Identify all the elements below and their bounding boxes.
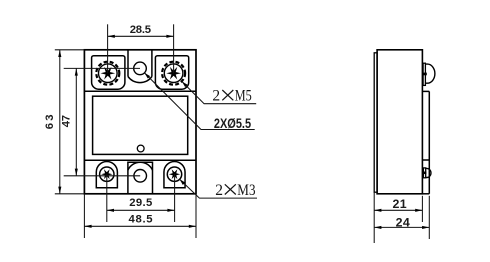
screw top-right: knurled ring [162,62,185,85]
star of top-right screw [166,67,181,80]
side body outline [377,50,422,194]
terminal cover strip top [422,90,429,92]
leader arrow M3 [180,179,186,185]
leader 2X diam 5.5 [145,73,255,130]
screw top-left head circle [99,64,118,83]
dim 47 extension lines [64,67,140,69]
svg-text:2: 2 [212,88,220,105]
bottom-right screw block [164,161,185,187]
arrows 29.5 [107,209,114,212]
label 2xM5 [212,88,252,105]
dim 28.5 line [108,35,174,37]
bottom-right screw head circle [167,167,181,181]
side top screw slot [423,73,427,76]
arrows 48.5 [84,225,91,228]
svg-text:2XØ5.5: 2XØ5.5 [214,116,252,131]
side dims left extension line [373,192,375,243]
leader arrow diam5.5 [145,73,151,79]
svg-text:21: 21 [393,197,408,211]
baseplate strip [374,53,377,192]
terminal cover strip right edge [428,91,430,193]
top-right terminal block [155,56,188,89]
screw U1 top-left: knurled ring [96,62,119,85]
leader 2xM3 [180,179,257,198]
label window [93,96,188,154]
bottom-left screw block [96,161,117,187]
side bottom screw washer [423,168,425,178]
bottom terminal section divider [84,159,196,161]
dim 21 line [374,209,422,211]
svg-text:29.5: 29.5 [129,197,152,209]
bottom mounting hole (2X diam 5.5) [134,170,147,183]
cover bottom edge [422,193,429,195]
relay body outline [84,50,196,194]
star of bottom-right screw [169,169,180,179]
dim 29.5 line [107,209,175,211]
svg-text:24: 24 [396,215,411,229]
svg-text:28.5: 28.5 [130,24,151,36]
bottom center block [128,162,153,194]
arrows 47 [75,68,78,75]
side top screw head [425,64,434,83]
svg-text:M3: M3 [237,182,255,199]
arrows 28.5 [108,35,115,38]
dim 28.5 extension lines [107,24,109,73]
dimension arrowheads [58,35,429,229]
svg-text:48.5: 48.5 [129,214,154,226]
bottom-left screw head circle [100,167,114,181]
arrows 21 [374,209,381,212]
dim 48.5 extension lines [83,194,85,238]
dim 47 line [75,68,77,175]
dim 63 line [59,50,61,194]
star of bottom-left screw [101,169,112,179]
dim 63 extension lines [55,49,85,51]
side bottom screw head [426,168,431,177]
dim 21 right extension line [421,196,423,222]
dim 24 line [374,226,429,228]
svg-text:47: 47 [60,115,72,127]
terminal cover divider [422,159,429,161]
leader 2xM5 [182,82,256,104]
top-left terminal block [92,56,125,89]
screw top-right head circle [164,64,183,83]
dim 29.5 extension lines [106,174,108,222]
side top screw washer [423,63,425,85]
LED indicator circle [137,145,144,152]
leader arrow M5 [182,82,188,88]
svg-text:M5: M5 [235,88,252,105]
bottom hole counterbore dome [128,162,153,170]
dim 48.5 line [84,225,196,227]
side bottom screw slot [423,172,427,175]
top mounting hole recess walls [127,50,129,77]
label 2xM3 [215,182,255,199]
arrows 24 [374,226,381,229]
star of top-left screw [101,67,116,80]
dim 24 right extension line [428,196,430,239]
screw cross stars [101,67,181,179]
top mounting hole recess arc [128,77,152,83]
svg-text:2: 2 [215,182,223,199]
top mounting hole (2X diam 5.5) [134,62,147,75]
svg-text:63: 63 [44,112,56,129]
arrows 63 [58,50,61,57]
top terminal section divider [84,90,196,92]
